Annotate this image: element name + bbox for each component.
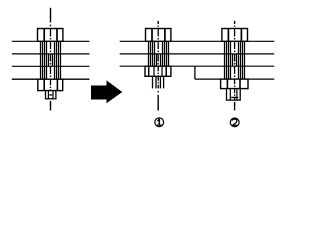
big black arrow	[91, 80, 122, 103]
fig2 centerline through nut	[234, 79, 236, 89]
fig1 tip hatch	[153, 76, 164, 88]
fig1 shaft hatch	[149, 41, 169, 66]
fig1 centerline top dot	[157, 26, 159, 27]
plate line 1	[120, 40, 275, 42]
fig2 centerline top dash	[234, 21, 236, 24]
fig2 head	[222, 29, 248, 42]
head bar right	[56, 29, 58, 42]
board line 3	[12, 65, 90, 67]
fig1 nut bar 3	[161, 66, 163, 76]
fig2 centerline through tip	[234, 89, 236, 101]
fig1 centerline through tip	[157, 76, 159, 88]
centerline through head+shaft (dash-dot)	[50, 29, 52, 80]
fig1 nut bar 2	[153, 66, 155, 76]
fig2 centerline through head+shaft	[234, 29, 236, 80]
fig2 nut	[221, 79, 248, 89]
step vertical	[194, 66, 196, 79]
nut bar left	[43, 79, 45, 90]
fig1 centerline bottom dot	[157, 91, 159, 92]
board line 2	[12, 53, 90, 55]
fig2 nut bar left	[226, 79, 228, 89]
tip bar right	[52, 91, 54, 99]
fig2 shaft hatch	[225, 41, 245, 79]
head bar left	[43, 29, 45, 42]
label circle 2	[230, 118, 239, 127]
fig1 nut bar 1	[148, 66, 150, 76]
fig2 nut bar right	[239, 79, 241, 89]
fig1 centerline through nut	[157, 66, 159, 76]
fig1 centerline top dash	[157, 21, 159, 24]
label digit 2	[232, 119, 237, 125]
fig1 head bar right	[164, 29, 166, 42]
fig2 centerline top dot	[234, 26, 236, 27]
label circle 1	[155, 118, 164, 127]
fig2 centerline bottom dash	[234, 102, 236, 111]
centerline top dot	[50, 25, 52, 27]
fig1 head bar left	[151, 29, 153, 42]
fig1 nut bar 4	[165, 66, 167, 76]
plate line 2	[120, 53, 275, 55]
tip bar left	[47, 91, 49, 99]
fig2 tip crossbar dot	[231, 96, 238, 98]
fig2 head bar left	[227, 29, 229, 42]
centerline bottom dash	[50, 101, 52, 111]
board line 4	[12, 78, 90, 80]
shaft hatch	[41, 41, 61, 79]
fig2 tip bar left	[229, 89, 231, 101]
fig2 tip bar right	[236, 89, 238, 101]
board line 1	[12, 40, 90, 42]
nut bar right	[56, 79, 58, 90]
plate line 4	[195, 78, 274, 80]
label digit 1	[157, 119, 162, 126]
head	[38, 29, 63, 42]
fig1 nut	[145, 66, 171, 76]
tip crossbar dot	[49, 94, 52, 96]
fig2 tip	[227, 89, 241, 101]
nut	[38, 79, 63, 90]
fig1 centerline through head+shaft	[157, 29, 159, 67]
centerline top dash	[50, 8, 52, 23]
fig1 head	[146, 29, 171, 42]
fig2 head bar right	[240, 29, 242, 42]
fig1 centerline bottom dash	[157, 95, 159, 111]
centerline through nut	[50, 79, 52, 90]
plate line 3	[120, 65, 275, 67]
tip	[46, 91, 56, 99]
